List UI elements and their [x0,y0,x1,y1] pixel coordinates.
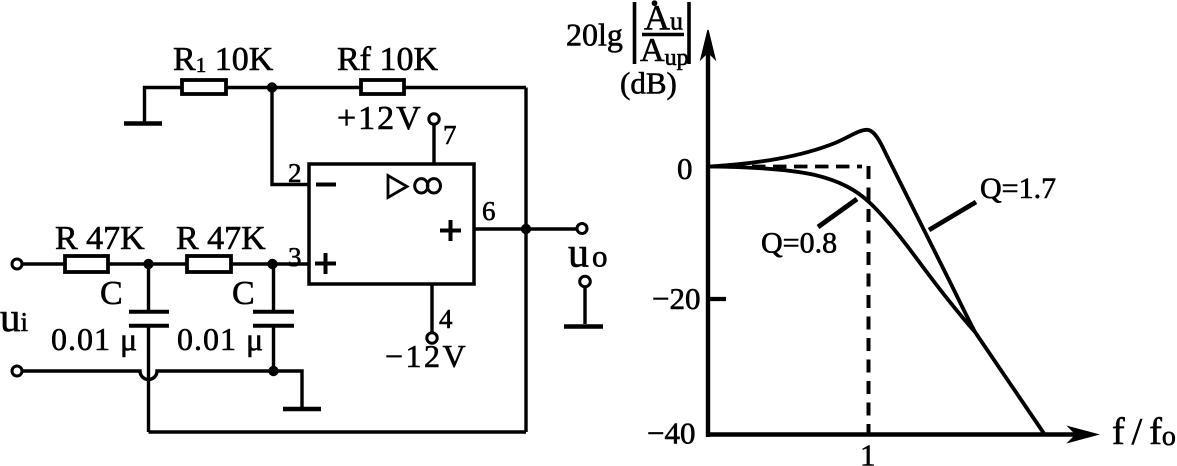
fraction |Au/Aup| [635,0,690,71]
leader line Q=1.7 [929,202,976,230]
svg-text:0.01 μ: 0.01 μ [177,321,264,357]
tick -20 [708,297,726,301]
terminal uo ground side [580,276,591,287]
infinity symbol [415,179,441,193]
terminal uo [577,224,587,234]
plus sign (pin 3 input) [315,253,336,274]
wire pin 4 to -12V terminal [430,284,433,333]
leader line Q=0.8 [818,199,857,227]
triangle (amplifier symbol) [388,176,407,198]
dashed vertical at f/fo=1 [867,166,871,433]
x-axis [706,432,1076,437]
dashed horizontal at 0 dB [710,165,862,169]
svg-text:20lg: 20lg [566,17,623,53]
svg-text:−40: −40 [647,416,695,451]
fraction left bar [633,2,637,64]
svg-text:Q=0.8: Q=0.8 [761,227,837,260]
svg-text:Q=1.7: Q=1.7 [980,172,1056,205]
ground bar [124,121,162,126]
terminal +12V [429,114,439,124]
plate [253,324,294,328]
svg-text:4: 4 [439,304,453,334]
svg-text:1: 1 [860,438,876,466]
ground bar (uo) [564,324,603,329]
wire node B down [272,264,275,310]
wire +12V terminal to pin 7 [432,125,435,165]
wire node E down to pin 2 [272,88,309,185]
node A [143,259,153,269]
wire R1 to node E [226,86,272,89]
dot over A [652,1,657,6]
svg-text:2: 2 [288,158,302,188]
capacitor C1 [129,264,169,432]
svg-text:3: 3 [288,242,302,272]
wire node E to Rf [272,86,361,89]
y-axis arrowhead [701,30,715,59]
svg-text:0.01 μ: 0.01 μ [51,321,138,357]
terminal input upper [12,259,22,269]
svg-text:R1 10K: R1 10K [173,41,274,78]
wire input to R [22,262,65,265]
chart text labels [566,0,1176,466]
svg-text:+12V: +12V [337,100,423,137]
fraction right bar [687,2,691,64]
plate [129,324,169,328]
svg-text:6: 6 [482,196,496,226]
wire bottom rail [149,430,527,433]
ground (left of R1) [124,88,182,124]
resistor R (first 47K) [65,256,108,272]
x-axis arrowhead [1068,427,1098,443]
y-axis [706,52,710,437]
svg-text:R 47K: R 47K [176,220,266,257]
svg-text:R 47K: R 47K [55,220,145,257]
terminal -12V [427,333,437,343]
resistor R (second 47K) [187,256,231,272]
svg-text:−20: −20 [652,281,700,316]
svg-text:−12V: −12V [385,338,468,374]
curve common asymptote [975,332,1044,434]
wire C1 down to bottom rail [147,328,150,433]
curve Q=1.7 [710,130,975,332]
plus sign (output) [440,220,461,241]
plate [253,310,294,314]
plate [129,310,169,314]
svg-text:(dB): (dB) [620,66,677,101]
circuit text labels [0,41,608,374]
wire node A to R2 [148,262,187,265]
wire right vertical (feedback to bottom rail) [524,88,527,433]
wire output pin 6 [474,227,577,230]
wire node B to pin 3 [272,262,309,265]
wire uo ground [583,287,586,324]
node D (output node) [521,224,531,234]
terminal input lower [12,366,22,376]
node B [267,259,277,269]
minus sign (pin 2 input) [316,183,336,187]
svg-text:Rf 10K: Rf 10K [337,41,439,78]
node C [268,366,278,376]
capacitor C2 [253,264,294,371]
curve Q=0.8 [710,167,975,333]
ground bar (node C) [283,407,321,412]
node E [267,82,277,92]
wire lower rail with hop [22,371,273,380]
wire node C to ground [273,371,302,407]
svg-text:C: C [100,275,123,312]
svg-text:0: 0 [677,151,693,186]
resistor R1 [182,80,226,94]
op-amp U1 box [309,164,474,284]
wire C2 down to node C [272,328,275,372]
resistor Rf [361,80,404,94]
svg-text:C: C [232,275,255,312]
wire Rf to right corner [404,86,526,89]
fraction bar [642,33,684,36]
wire [145,88,183,123]
wire R2 to node B [231,262,272,265]
wire R to node A [108,262,148,265]
svg-text:7: 7 [443,120,457,150]
wire node A down [147,264,150,310]
